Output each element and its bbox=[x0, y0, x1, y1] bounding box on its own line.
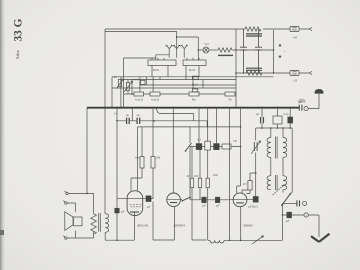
tube V2 top lead bbox=[172, 108, 174, 194]
wire switch V3 drop bbox=[281, 203, 283, 240]
wire rail left vert bbox=[111, 77, 113, 108]
tube V1 bottom lead bbox=[134, 212, 136, 240]
wire lamp to resistor bbox=[209, 49, 218, 51]
svg-text:Gw(3): Gw(3) bbox=[151, 97, 159, 101]
wire bottom rail right bbox=[224, 239, 282, 241]
svg-text:~: ~ bbox=[284, 50, 286, 54]
wire dw links bbox=[140, 77, 186, 92]
wire bus left drop bbox=[86, 108, 88, 194]
output transformer secondary bbox=[105, 214, 108, 241]
tube V2 bottom lead bbox=[173, 207, 175, 240]
capacitor block right bbox=[288, 117, 293, 123]
resistor 10m bbox=[140, 157, 144, 169]
switch S2 tube2 bbox=[182, 197, 190, 201]
wire antenna cross bbox=[177, 37, 199, 50]
resistor Gw1 bbox=[134, 92, 144, 96]
svg-text:µF: µF bbox=[202, 204, 206, 208]
earth aerial ghost offset bbox=[298, 99, 306, 103]
wire tube3 anode vert bbox=[240, 108, 242, 187]
terminal T2 bbox=[65, 202, 67, 204]
capacitor grid V1 bbox=[151, 195, 153, 199]
svg-text:+R: +R bbox=[233, 139, 237, 143]
capacitor coupling b bbox=[215, 197, 219, 202]
wire bottom rail bbox=[208, 239, 210, 241]
svg-text:µF: µF bbox=[216, 204, 220, 208]
svg-text:100: 100 bbox=[194, 174, 199, 178]
resistor Gw3 bbox=[150, 92, 160, 96]
wire phone row bbox=[282, 202, 297, 204]
resistor choke R1 top bbox=[245, 27, 261, 31]
capacitor 0,1 a bbox=[196, 144, 202, 150]
svg-text:Dr23: Dr23 bbox=[189, 68, 196, 72]
lamp La bbox=[203, 47, 209, 53]
resistor 0,5 bbox=[248, 181, 252, 190]
fuse Si2 bbox=[290, 70, 299, 75]
capacitor heater A bbox=[127, 118, 130, 124]
tube V1 envelope bbox=[127, 191, 143, 216]
svg-text:Gw(1): Gw(1) bbox=[135, 97, 143, 101]
jack phone bbox=[303, 201, 307, 205]
coil tap box a bbox=[192, 76, 198, 79]
wire grid row3 bbox=[138, 126, 241, 128]
capacitor grid V3 bbox=[253, 197, 258, 203]
fuse Si1 bbox=[290, 26, 299, 31]
resistor anode V2 bbox=[198, 178, 201, 188]
choke core bars bottom bbox=[246, 68, 262, 70]
transformer T2 secondary bbox=[283, 176, 287, 193]
tube V2 envelope bbox=[167, 193, 181, 207]
wire inner box right bbox=[229, 108, 231, 241]
transformer T2 primary bbox=[267, 176, 271, 190]
arrow T2 variable bbox=[273, 185, 284, 195]
resistor 20m bbox=[206, 178, 209, 188]
capacitor C filter 2 bbox=[255, 29, 262, 73]
tube V3 envelope bbox=[233, 193, 247, 207]
tube V2 grid wire bbox=[167, 198, 182, 200]
svg-text:Dw3: Dw3 bbox=[192, 83, 198, 87]
wire speaker bottom bbox=[75, 231, 77, 239]
wire antenna feed vertical bbox=[176, 32, 178, 49]
tube V3 anode bbox=[236, 202, 244, 204]
wire rail g1 bbox=[112, 76, 274, 78]
wire branch 190 low bbox=[189, 147, 191, 198]
tiny labels bbox=[113, 36, 308, 228]
wire switch feed right bbox=[290, 128, 293, 194]
terminal battery bottom bbox=[309, 71, 312, 74]
svg-text:µF: µF bbox=[147, 205, 151, 209]
jack bus c bbox=[304, 107, 308, 111]
wire rail g4 bbox=[112, 87, 236, 89]
wire switch bus left bbox=[124, 58, 156, 108]
svg-text:20m: 20m bbox=[213, 173, 219, 177]
title Saba 33 G bbox=[13, 18, 25, 59]
scan edge strip bbox=[0, 0, 5, 270]
output transformer primary zigzag bbox=[91, 193, 97, 238]
coil box Dr01 bbox=[148, 60, 176, 66]
terminal T1 bbox=[66, 192, 68, 194]
wire coil taps down bbox=[152, 66, 199, 77]
wire drop 132 bbox=[131, 108, 133, 121]
wire right rail 128 bbox=[256, 127, 293, 129]
wire terminal2 bbox=[67, 203, 76, 212]
wire branch 216 bbox=[215, 108, 217, 144]
wire rail g3 bbox=[139, 84, 236, 86]
resistor 100 bbox=[190, 178, 193, 188]
capacitor bus out plates bbox=[299, 105, 302, 111]
svg-text:Dr01: Dr01 bbox=[153, 68, 160, 72]
svg-text:RE084: RE084 bbox=[242, 223, 253, 227]
wire band verticals bbox=[121, 77, 203, 108]
svg-text:10m: 10m bbox=[134, 156, 140, 160]
wire grid V3 branch bbox=[246, 173, 255, 194]
terminal battery top bbox=[309, 27, 312, 30]
resistor 20k bbox=[151, 157, 155, 169]
resistor choke R2 bottom bbox=[246, 71, 262, 75]
tube V1 grid wire bbox=[117, 198, 146, 200]
transformer T2 core bbox=[275, 175, 277, 190]
resistor Bw bbox=[189, 92, 199, 96]
antenna tap 3 bbox=[180, 45, 188, 58]
svg-text:±4: ±4 bbox=[114, 112, 118, 116]
wire branch 192 bbox=[192, 147, 206, 241]
switch S3 bbox=[281, 194, 290, 206]
capacitor 0,1 b bbox=[214, 144, 220, 150]
svg-text:20k: 20k bbox=[156, 156, 161, 160]
capacitor elko right bbox=[261, 108, 263, 129]
tube V1 top stubs bbox=[131, 178, 142, 191]
tube V2 anode bbox=[170, 202, 177, 204]
wire antenna left link bbox=[156, 55, 169, 60]
wire bus to earth aerial bbox=[308, 94, 319, 109]
transformer T1 core bbox=[275, 137, 277, 159]
svg-text:µF: µF bbox=[121, 210, 125, 214]
trimmer cap right bbox=[255, 128, 257, 197]
svg-text:REN904: REN904 bbox=[172, 223, 185, 227]
resistor Rv zigzag bbox=[218, 48, 232, 52]
capacitor Ck block bbox=[115, 208, 119, 213]
switch S1 bbox=[186, 143, 192, 151]
wire outer box top bbox=[105, 28, 309, 30]
capacitor coupling a bbox=[202, 197, 206, 202]
tube V1 grids dashes bbox=[130, 205, 142, 207]
wire rail +lt bbox=[236, 72, 309, 74]
svg-text:Saba: Saba bbox=[15, 50, 20, 59]
wire coupling row bbox=[190, 108, 241, 147]
potentiometer Pw2 bbox=[118, 80, 121, 87]
resistor box mid bbox=[205, 141, 211, 150]
wire coupling caps row bbox=[190, 197, 230, 200]
svg-text:+4S: +4S bbox=[292, 36, 298, 40]
jack pickup bbox=[304, 213, 308, 217]
wire heater upper bbox=[157, 108, 194, 121]
svg-text:4µ: 4µ bbox=[137, 113, 141, 117]
capacitor C filter 1 bbox=[240, 29, 247, 73]
svg-text:2µ: 2µ bbox=[256, 112, 260, 116]
capacitor phone bbox=[297, 200, 300, 206]
svg-text:−2S: −2S bbox=[292, 78, 298, 82]
earth aerial symbol bbox=[314, 89, 323, 94]
resistor Tw bbox=[225, 92, 235, 96]
svg-text:RES164: RES164 bbox=[136, 223, 148, 227]
svg-text:µF: µF bbox=[299, 100, 303, 104]
capacitor box 01u bbox=[273, 116, 282, 124]
wire terminal1 bbox=[68, 192, 93, 194]
potentiometer Pw bbox=[126, 83, 129, 91]
wire lamp feed bbox=[198, 50, 203, 60]
wire outer box left bbox=[104, 29, 106, 214]
coil tap box b bbox=[192, 89, 198, 92]
svg-text:µF: µF bbox=[286, 219, 290, 223]
coil cathode bottom bbox=[210, 240, 224, 243]
choke core bars top bbox=[246, 34, 262, 36]
wire branch 142 bbox=[141, 127, 143, 178]
coil box Dr23 bbox=[183, 60, 206, 66]
wire switch feed bbox=[189, 127, 191, 143]
tube V3 top stubs bbox=[237, 186, 248, 193]
wire pickup row bbox=[282, 214, 304, 216]
antenna tap 1 bbox=[165, 45, 173, 58]
wire branch 200 bbox=[199, 147, 201, 200]
capacitor pickup bbox=[287, 212, 292, 218]
transformer T1 primary bbox=[267, 128, 271, 176]
speaker coil box bbox=[73, 217, 82, 226]
capacitor heater B bbox=[137, 118, 140, 124]
wire resistor row rail bbox=[124, 93, 237, 95]
transformer T1 secondary bbox=[283, 128, 287, 176]
wire terminal3 bbox=[67, 237, 94, 239]
wire filter mid vertical bbox=[273, 30, 275, 73]
wire pw branch bbox=[132, 80, 139, 94]
resistor horiz R bbox=[222, 144, 231, 149]
wire to filter caps bbox=[232, 49, 274, 51]
wire cathode U2 bbox=[153, 202, 174, 241]
svg-text:4µ: 4µ bbox=[126, 113, 130, 117]
bus main HT thick bbox=[87, 107, 299, 109]
wire inner top bbox=[105, 31, 177, 33]
wire branch 153 bbox=[152, 108, 154, 196]
wire rail g2 bbox=[124, 79, 237, 81]
tube V3 grid wire bbox=[230, 198, 254, 200]
antenna tap 2 bbox=[173, 45, 181, 58]
svg-text:33 G: 33 G bbox=[13, 18, 25, 41]
wire power left vertical bbox=[235, 29, 237, 108]
wire heater drop left bbox=[105, 108, 134, 241]
wire heater row bbox=[117, 121, 207, 127]
voltmeter arrows 4V bbox=[279, 44, 281, 58]
wire to earth bbox=[308, 215, 319, 237]
earth ground symbol bbox=[311, 234, 329, 242]
tube V3 bottom lead bbox=[240, 207, 242, 241]
wire stub 137 bbox=[137, 127, 139, 191]
tube V1 anode bbox=[130, 211, 139, 213]
coil tap box c bbox=[141, 80, 146, 84]
terminal T3 bbox=[65, 237, 67, 239]
speaker cone bbox=[65, 212, 73, 231]
wire branch 207 bbox=[207, 108, 209, 241]
output transformer core bbox=[99, 213, 101, 232]
svg-text:Pw: Pw bbox=[113, 75, 118, 79]
choke bar under Rv bbox=[218, 54, 233, 56]
trimmer arrow reaction bbox=[252, 236, 264, 244]
